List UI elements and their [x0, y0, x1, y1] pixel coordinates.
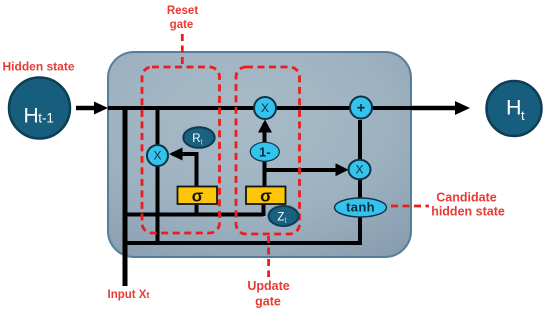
svg-text:H: H [24, 105, 39, 128]
svg-text:Update: Update [247, 279, 289, 293]
svg-text:X: X [261, 101, 269, 115]
svg-text:t: t [521, 108, 525, 123]
svg-text:σ: σ [192, 187, 204, 206]
svg-text:tanh: tanh [346, 200, 375, 215]
svg-text:1-: 1- [259, 145, 271, 160]
svg-text:gate: gate [170, 19, 194, 31]
svg-text:σ: σ [260, 187, 272, 206]
svg-text:H: H [506, 96, 522, 120]
svg-text:Reset: Reset [167, 5, 198, 17]
svg-text:t-1: t-1 [38, 111, 54, 126]
svg-text:Input Xt: Input Xt [108, 289, 150, 301]
svg-text:hidden state: hidden state [431, 205, 505, 219]
svg-text:+: + [357, 100, 366, 117]
svg-text:Hidden state: Hidden state [2, 60, 74, 74]
svg-text:X: X [355, 163, 363, 177]
svg-text:gate: gate [255, 295, 281, 309]
svg-text:X: X [153, 149, 161, 163]
svg-text:Candidate: Candidate [436, 191, 496, 205]
